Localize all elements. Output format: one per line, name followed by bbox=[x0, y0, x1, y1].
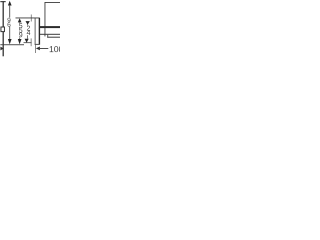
wall section bottom edge bbox=[35, 43, 40, 46]
dimension C top extension vertical bbox=[30, 15, 33, 22]
dimension C bottom extension line bbox=[24, 41, 32, 44]
dimension line A upper arrow bbox=[8, 1, 12, 6]
dimension C label background bbox=[26, 26, 31, 36]
slider knob box bbox=[1, 27, 4, 32]
depth extension line below wall bbox=[34, 45, 37, 53]
supply pipe lower line bbox=[40, 34, 60, 35]
rail upper segment bbox=[3, 1, 4, 27]
dimension line A upper segment bbox=[8, 5, 11, 18]
dimension line C upper arrow bbox=[26, 21, 30, 25]
dimension C bottom extension vertical bbox=[30, 38, 33, 46]
dimension B label digit 9 bbox=[19, 32, 22, 37]
dimension A label background bbox=[7, 18, 11, 27]
wall section left edge bbox=[34, 18, 37, 45]
dimension B label digit 5b bbox=[19, 28, 22, 33]
lower step left edge bbox=[46, 35, 49, 38]
dimension line A lower segment bbox=[8, 27, 11, 40]
wall section right edge bbox=[39, 18, 40, 45]
dimension C label digit 2 bbox=[27, 26, 30, 31]
dimension line B lower arrow bbox=[18, 39, 22, 44]
concealed body left edge bbox=[44, 2, 47, 36]
rail lower segment bbox=[3, 32, 4, 56]
dimension A label digit 6 bbox=[7, 22, 10, 27]
dimension A label digit 9 bbox=[7, 18, 10, 23]
dimension B label digit 5a bbox=[19, 23, 22, 28]
concealed body top edge bbox=[45, 1, 61, 4]
top extension tick of rail bbox=[0, 1, 5, 2]
dimension line B stem bbox=[18, 22, 21, 39]
depth dimension left arrow bbox=[0, 47, 3, 51]
dimension C label digit 4 bbox=[27, 30, 31, 35]
lower step bottom edge bbox=[47, 37, 60, 38]
supply pipe upper line (thick) bbox=[40, 26, 60, 28]
dimension line A lower arrow bbox=[8, 39, 12, 44]
dimension line C stem bbox=[26, 24, 29, 38]
dimension line C lower arrow bbox=[25, 39, 29, 43]
top extension line of concealed body bbox=[16, 17, 40, 20]
dimension label 100 bbox=[50, 46, 63, 52]
depth dimension right arrow bbox=[36, 47, 40, 51]
bottom extension line bbox=[0, 43, 24, 46]
background bbox=[0, 0, 60, 61]
depth dimension leader dash bbox=[40, 47, 48, 50]
dimension line B upper arrow bbox=[18, 18, 22, 22]
dimension B label background bbox=[18, 23, 23, 37]
